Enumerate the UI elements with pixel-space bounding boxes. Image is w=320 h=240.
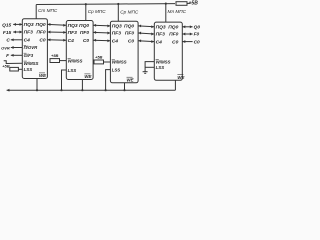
wire U2 WE to WE bus [81, 80, 83, 91]
wire U4 LSS join [145, 66, 154, 68]
junction on WE bus [123, 89, 125, 91]
svg-text:LSS: LSS [68, 68, 77, 73]
svg-text:ПQ3: ПQ3 [68, 23, 78, 29]
junction on Z line [85, 3, 87, 5]
svg-text:С4: С4 [156, 39, 163, 45]
resistor R2 (U1 LSS pull-up) [10, 67, 19, 71]
wire C4 out of U1 [11, 39, 22, 41]
svg-text:ПF3: ПF3 [68, 30, 78, 36]
junction on WE bus [36, 89, 38, 91]
svg-text:ПF0: ПF0 [80, 30, 90, 36]
wire U4 WE to WE bus [174, 80, 176, 90]
junction on WE bus [81, 89, 83, 91]
svg-text:С0: С0 [172, 39, 179, 45]
wire F out of U1 [11, 54, 22, 56]
wire shift F U1-U2 [47, 31, 66, 33]
svg-text:+5В: +5В [189, 1, 199, 7]
wire carry C U4 to U3 [138, 40, 154, 43]
wire R2 to U1 LSS [18, 68, 22, 70]
wire from R1 to +5V [187, 2, 191, 4]
junction on WE bus [60, 89, 62, 91]
wire U3 WE to WE bus [124, 83, 126, 90]
wire WE bus [7, 89, 176, 91]
svg-text:+5В: +5В [51, 53, 59, 58]
svg-text:ОVR: ОVR [1, 45, 10, 50]
wire U2 LSS to WE bus [62, 70, 67, 90]
svg-text:LSS: LSS [156, 65, 165, 70]
wire Z drop to IC1 top [35, 5, 37, 19]
wire Z drop to IC4 top [165, 4, 167, 22]
IC U2 (MPS slice) box [66, 21, 93, 80]
svg-text:С0: С0 [83, 38, 90, 44]
junction on Z line [117, 3, 119, 5]
wire Z line (common open-collector line to +5V) [36, 3, 175, 6]
svg-text:ПF3: ПF3 [112, 31, 122, 37]
svg-text:Мл МПС: Мл МПС [168, 9, 187, 14]
svg-text:WЕ: WЕ [127, 77, 135, 82]
junction on Z line [165, 3, 167, 5]
wire shift F U2-U3 [93, 31, 110, 34]
svg-text:ПQ3: ПQ3 [156, 25, 166, 31]
svg-text:ПF0: ПF0 [125, 31, 135, 37]
svg-text:Ср МПС: Ср МПС [88, 9, 107, 14]
wire Z drop to IC2 top [85, 4, 87, 20]
wire U1 WE to WE bus [36, 79, 38, 91]
svg-text:WЕ: WЕ [84, 74, 92, 79]
resistor R3 (U2 W/MSS pull-up) [50, 59, 60, 63]
wire shift F U3-U4 [138, 33, 154, 34]
svg-text:G/F3: G/F3 [24, 53, 34, 58]
wire Q15 to U1 [13, 23, 22, 25]
svg-text:С0: С0 [194, 39, 200, 45]
svg-text:W/MSS: W/MSS [156, 59, 171, 64]
svg-text:С4: С4 [112, 39, 119, 45]
svg-text:ПF3: ПF3 [156, 32, 166, 38]
wire carry C U2 to U1 [47, 39, 66, 41]
svg-text:W/MSS: W/MSS [68, 58, 83, 63]
wire shift Q U3-U4 [138, 25, 154, 28]
wire R4 to U3 W/MSS [104, 61, 111, 63]
svg-text:Ст МПС: Ст МПС [38, 8, 58, 13]
svg-text:ПF3: ПF3 [24, 30, 34, 36]
wire OVR out of U1 [11, 47, 22, 49]
resistor R4 (U3 W/MSS pull-up) [94, 60, 104, 64]
wire carry C U3 to U2 [93, 39, 110, 42]
svg-text:ПQ0: ПQ0 [36, 22, 46, 28]
svg-text:W/MSS: W/MSS [24, 61, 39, 66]
svg-text:Q15: Q15 [2, 22, 11, 28]
wire F0 [182, 33, 192, 35]
svg-text:С0: С0 [39, 38, 46, 44]
svg-text:WЕ: WЕ [177, 75, 185, 80]
IC U3 (MPS slice) box [110, 21, 138, 83]
resistor R1 (pull-up to +5V) [176, 2, 187, 6]
svg-text:ПQ0: ПQ0 [124, 24, 134, 30]
svg-text:Ср МПС: Ср МПС [120, 10, 139, 15]
svg-text:+5В: +5В [95, 55, 103, 60]
svg-text:+5В: +5В [2, 64, 10, 69]
ground symbol [143, 71, 148, 73]
wire Z drop to IC3 top [117, 4, 119, 21]
wire U3 LSS to WE bus [106, 70, 111, 91]
svg-text:LSS: LSS [24, 67, 33, 72]
svg-text:П/OVR: П/OVR [24, 45, 38, 50]
svg-text:Q0: Q0 [194, 25, 200, 31]
svg-text:WЕ: WЕ [39, 73, 47, 78]
svg-text:ПF0: ПF0 [169, 32, 179, 38]
wire F15 to U1 [13, 31, 22, 33]
wire R3 to U2 W/MSS [60, 60, 67, 62]
svg-text:ПQ3: ПQ3 [24, 22, 34, 28]
svg-text:С4: С4 [24, 38, 31, 44]
IC U4 (MPS slice) box [154, 22, 182, 80]
junction on WE bus [105, 89, 107, 91]
svg-text:W/MSS: W/MSS [112, 60, 127, 65]
wire U1 W/MSS stub with level symbol [4, 61, 23, 64]
wire shift Q U1-U2 [47, 23, 66, 26]
IC U1 (MPS slice) box [22, 19, 47, 79]
svg-text:F15: F15 [3, 30, 12, 36]
svg-text:F0: F0 [194, 32, 200, 38]
svg-text:С0: С0 [128, 39, 135, 45]
svg-text:ПQ3: ПQ3 [112, 24, 122, 30]
svg-text:ПQ0: ПQ0 [168, 25, 178, 31]
wire shift Q U2-U3 [93, 24, 110, 27]
svg-text:ПF0: ПF0 [36, 30, 46, 36]
wire C0 [182, 41, 192, 43]
svg-text:С: С [6, 38, 10, 44]
wire Q0 [182, 26, 192, 28]
wire U4 W/MSS to ground [145, 62, 154, 72]
svg-text:ПQ0: ПQ0 [79, 23, 89, 29]
svg-text:LSS: LSS [112, 68, 121, 73]
svg-text:С4: С4 [68, 38, 75, 44]
